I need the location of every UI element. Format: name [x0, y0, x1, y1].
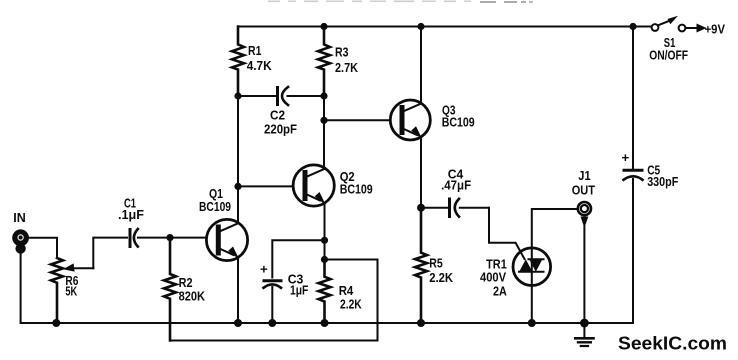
resistor R3: [318, 27, 358, 97]
node Q3 base junction: [320, 117, 327, 124]
wire Q2 base: [238, 185, 293, 187]
node R1 / C2 / Q1 collector junction: [234, 92, 241, 99]
svg-text:+: +: [260, 261, 268, 276]
wire feedback R2 bottom to Q2 emitter node: [170, 260, 378, 341]
svg-text:400V: 400V: [480, 269, 506, 284]
capacitor C2 220pF: [264, 87, 297, 137]
capacitor C3 1uF: [260, 240, 325, 323]
svg-text:BC109: BC109: [442, 115, 475, 130]
capacitor C4 .47uF: [421, 166, 489, 216]
wire IN jack sleeve to ground rail: [20, 252, 22, 323]
resistor R2 820K: [164, 238, 205, 341]
wire Q2 emitter: [324, 203, 326, 259]
svg-text:J1: J1: [578, 168, 591, 183]
svg-text:2A: 2A: [493, 284, 507, 299]
svg-text:SeekIC.com: SeekIC.com: [618, 333, 727, 354]
node top rail / C5 junction: [629, 23, 636, 30]
wire Q3 emitter to C4 node: [420, 137, 422, 208]
transistor Q1 BC109: [199, 186, 248, 261]
node R6 / ground rail junction: [52, 319, 60, 327]
wire R3 to Q2 collector: [323, 96, 325, 168]
svg-text:2.2K: 2.2K: [429, 270, 453, 285]
svg-text:.47μF: .47μF: [441, 178, 471, 193]
wire Q3 base: [324, 119, 390, 121]
transistor Q2 BC109: [293, 165, 373, 206]
node R5 / ground rail junction: [417, 319, 425, 327]
capacitor C1 .1uF: [118, 196, 144, 247]
output jack J1 OUT: [572, 168, 595, 225]
svg-text:5K: 5K: [65, 284, 77, 299]
transistor Q3 BC109: [390, 100, 474, 140]
node TR1 / ground rail junction: [528, 319, 536, 327]
node J1 / ground symbol junction: [580, 319, 589, 328]
cropped title text remnant: [268, 1, 533, 4]
svg-text:330pF: 330pF: [647, 174, 678, 189]
wire arrow to +9V: [686, 22, 725, 37]
node Q1 collector / Q2 base junction: [234, 183, 241, 190]
svg-text:+9V: +9V: [705, 22, 726, 37]
input jack IN: [12, 210, 29, 254]
svg-text:IN: IN: [13, 210, 25, 225]
node Q2 emitter / C3 junction: [321, 237, 328, 244]
wire C1 to Q1 base: [138, 237, 170, 239]
svg-text:OUT: OUT: [572, 182, 595, 197]
svg-text:C2: C2: [270, 108, 285, 123]
wire TR1 MT2 to J1: [532, 209, 577, 248]
switch S1 ON/OFF: [649, 16, 688, 63]
wire J1 to ground rail: [583, 224, 585, 324]
resistor R5 2.2K: [415, 208, 453, 323]
wire bottom ground rail: [21, 322, 633, 324]
wire Q1 emitter: [237, 258, 239, 323]
node top rail / Q3 collector junction: [417, 23, 424, 30]
wire Q1 base: [170, 237, 207, 239]
node C1 / R2 / Q1 base junction: [166, 234, 173, 241]
wire Q3 collector: [420, 27, 422, 104]
node Q1 emitter / ground rail junction: [234, 319, 242, 327]
svg-text:+: +: [622, 150, 630, 165]
node top rail / R3 junction: [320, 23, 327, 30]
svg-text:BC109: BC109: [199, 199, 231, 214]
node C3 / ground rail junction: [268, 319, 276, 327]
svg-text:4.7K: 4.7K: [247, 58, 272, 73]
svg-text:220pF: 220pF: [264, 122, 297, 137]
svg-text:1μF: 1μF: [290, 283, 308, 298]
wire C4 to TR1 gate: [489, 208, 525, 259]
node R3 / C2 junction: [320, 92, 327, 99]
wire IN jack to R6 top: [29, 238, 57, 258]
wire TR1 MT1 to ground rail: [531, 285, 533, 323]
svg-text:ON/OFF: ON/OFF: [649, 47, 688, 62]
triac TR1 400V 2A: [480, 248, 551, 299]
capacitor C5 330pF: [622, 27, 679, 324]
ground symbol: [575, 323, 593, 346]
wire Q1 collector: [237, 96, 239, 223]
wire top +9V rail: [238, 26, 652, 28]
svg-text:R3: R3: [335, 45, 349, 60]
node R4 / ground rail junction: [321, 319, 329, 327]
resistor R1: [232, 27, 272, 97]
svg-text:BC109: BC109: [340, 182, 373, 197]
svg-text:820K: 820K: [179, 288, 206, 303]
svg-text:R1: R1: [248, 43, 262, 58]
node Q2 emitter / R4 / feedback junction: [321, 256, 328, 263]
resistor R4 2.2K: [319, 260, 363, 324]
potentiometer R6 5K: [51, 258, 93, 323]
svg-text:R5: R5: [429, 255, 443, 270]
svg-text:2.2K: 2.2K: [340, 296, 362, 311]
node Q3 emitter / C4 / R5 junction: [417, 204, 425, 212]
svg-text:.1μF: .1μF: [118, 207, 144, 222]
svg-text:2.7K: 2.7K: [335, 60, 358, 75]
wire R6 wiper riser to C1: [93, 238, 127, 269]
wire C2 row: [238, 95, 324, 97]
